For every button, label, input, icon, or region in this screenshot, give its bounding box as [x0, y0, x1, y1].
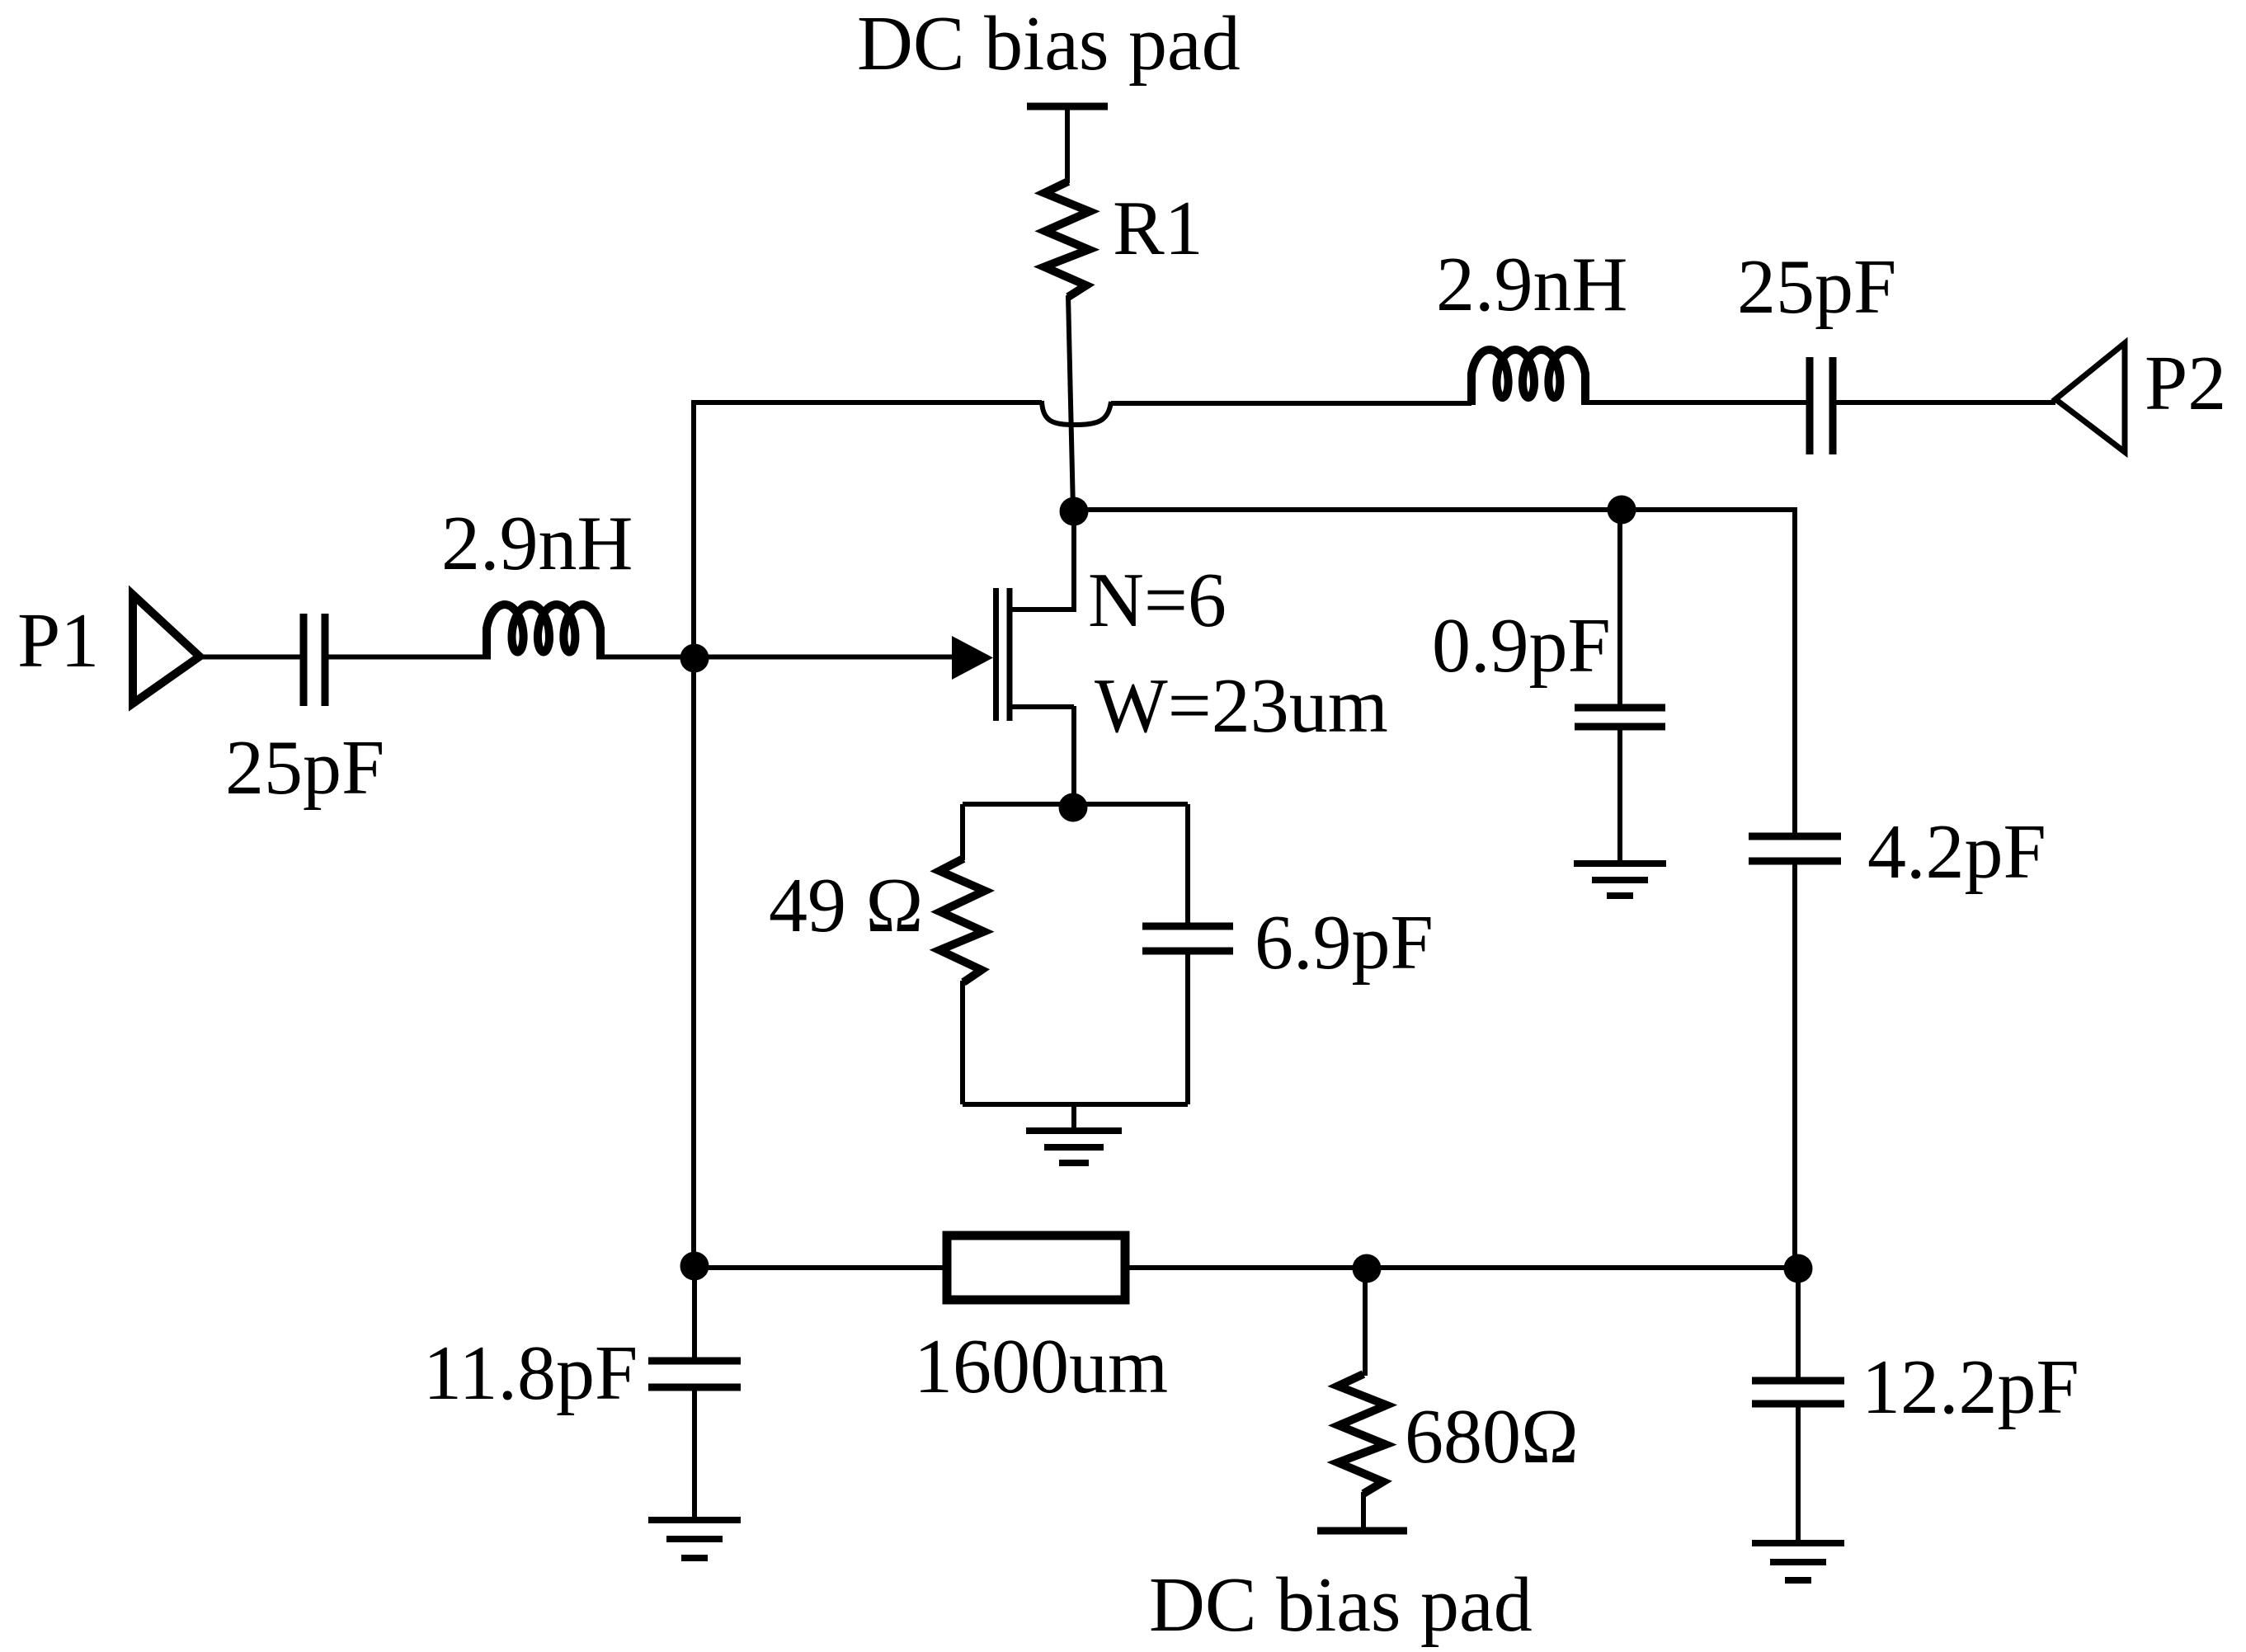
svg-text:P1: P1 [17, 598, 99, 684]
node: bus left [680, 1252, 709, 1281]
capacitor 11.8pF [648, 1361, 741, 1387]
wire: inductor to gate node [600, 655, 695, 660]
wire: 25pF to port P2 [1836, 400, 2055, 405]
wire: 49 ohm lower leg [960, 981, 965, 1104]
wire: drain riser [1071, 510, 1076, 612]
inductor 2.9nH (input matching) [487, 605, 600, 660]
wire: bus to 12.2pF [1796, 1268, 1801, 1377]
resistor R1 [1044, 181, 1090, 297]
svg-text:0.9pF: 0.9pF [1432, 603, 1611, 689]
wire: 680 ohm branch [1363, 1268, 1368, 1376]
svg-text:N=6: N=6 [1088, 558, 1227, 643]
wire: 6.9pF upper leg [1185, 804, 1190, 923]
transistor M1 drain stub [1010, 607, 1074, 612]
resistor 680 ohm [1338, 1374, 1387, 1494]
wire: 0.9pF branch upper [1617, 510, 1622, 704]
capacitor 6.9pF [1142, 926, 1233, 951]
svg-text:W=23um: W=23um [1095, 663, 1388, 749]
node: source [1059, 793, 1088, 822]
wire: RC bottom to ground [1071, 1104, 1076, 1129]
port P2 [2055, 343, 2125, 452]
svg-text:12.2pF: 12.2pF [1862, 1344, 2079, 1430]
node: bus 680 ohm tap [1353, 1254, 1382, 1283]
port P1 [133, 595, 200, 704]
wire: source riser [1071, 706, 1076, 806]
wire: top horizontal, corner to hop [694, 400, 1042, 405]
svg-text:6.9pF: 6.9pF [1255, 900, 1434, 986]
capacitor 0.9pF [1575, 708, 1665, 727]
node: gate junction [680, 644, 709, 673]
transistor M1 gate arrow [952, 636, 993, 680]
svg-text:4.2pF: 4.2pF [1867, 809, 2046, 895]
svg-text:DC bias pad: DC bias pad [1149, 1562, 1533, 1648]
svg-text:25pF: 25pF [1737, 244, 1896, 330]
wire: gate node to gate arrow [695, 655, 953, 660]
node: 0.9pF tap [1608, 496, 1636, 525]
transistor M1 gate bar [993, 588, 999, 721]
capacitor 25pF (output DC block) [1810, 357, 1833, 454]
svg-text:R1: R1 [1113, 186, 1203, 271]
capacitor 25pF (input DC block) [304, 614, 325, 706]
wire: drain node to feedback corner [1074, 507, 1795, 512]
DC bias pad symbol (bottom) [1317, 1527, 1407, 1535]
wire: inductor to output 25pF [1585, 400, 1806, 405]
wire: R1 down through hop to drain node [1068, 295, 1073, 510]
wire: 6.9pF lower leg [1185, 954, 1190, 1104]
wire: 49 ohm upper leg [960, 804, 965, 860]
wire: 12.2pF to ground [1796, 1407, 1801, 1541]
wire: bus to 11.8pF [692, 1268, 697, 1358]
wire: 25pF to input inductor [328, 655, 487, 660]
transistor M1 channel bar [1007, 588, 1013, 721]
wire: left vertical trunk (feedback left leg) [691, 400, 696, 1268]
inductor 2.9nH (output matching) [1471, 350, 1585, 405]
svg-text:2.9nH: 2.9nH [1436, 242, 1627, 327]
wire: RC network top [963, 802, 1188, 807]
wire: hop to output inductor [1111, 401, 1471, 406]
svg-text:25pF: 25pF [225, 725, 384, 811]
svg-text:11.8pF: 11.8pF [423, 1330, 638, 1416]
resistor 49 ohm [939, 859, 985, 982]
node: bus right [1784, 1254, 1813, 1283]
svg-text:DC bias pad: DC bias pad [857, 1, 1241, 87]
wire: 0.9pF to ground [1617, 730, 1622, 862]
capacitor 4.2pF [1749, 836, 1841, 861]
ground (0.9pF) [1574, 864, 1666, 896]
ground (11.8pF) [648, 1520, 741, 1558]
wire: bottom bus [694, 1265, 1795, 1270]
svg-text:680Ω: 680Ω [1405, 1394, 1579, 1480]
transistor M1 source stub [1010, 704, 1074, 709]
wire: RC network bottom [963, 1102, 1188, 1107]
svg-text:49 Ω: 49 Ω [769, 863, 923, 948]
wire: 680 ohm to bottom pad [1361, 1492, 1366, 1531]
svg-text:1600um: 1600um [914, 1324, 1168, 1410]
ground (RC network) [1026, 1131, 1122, 1163]
svg-text:2.9nH: 2.9nH [441, 501, 633, 586]
capacitor 12.2pF [1752, 1381, 1844, 1404]
wire: P1 to input 25pF [200, 655, 300, 660]
wire: 11.8pF to ground [692, 1391, 697, 1518]
wire: top pad to resistor R1 [1065, 106, 1070, 183]
wire hop over R1 branch [1042, 401, 1111, 425]
node: drain [1060, 497, 1089, 526]
wire: feedback vertical lower (4.2pF to bus) [1792, 864, 1797, 1268]
ground (12.2pF) [1752, 1543, 1844, 1580]
wire: feedback vertical upper (to 4.2pF) [1792, 507, 1797, 833]
transmission line 1600um [947, 1235, 1125, 1300]
svg-text:P2: P2 [2145, 341, 2226, 426]
DC bias pad symbol (top) [1027, 103, 1108, 111]
